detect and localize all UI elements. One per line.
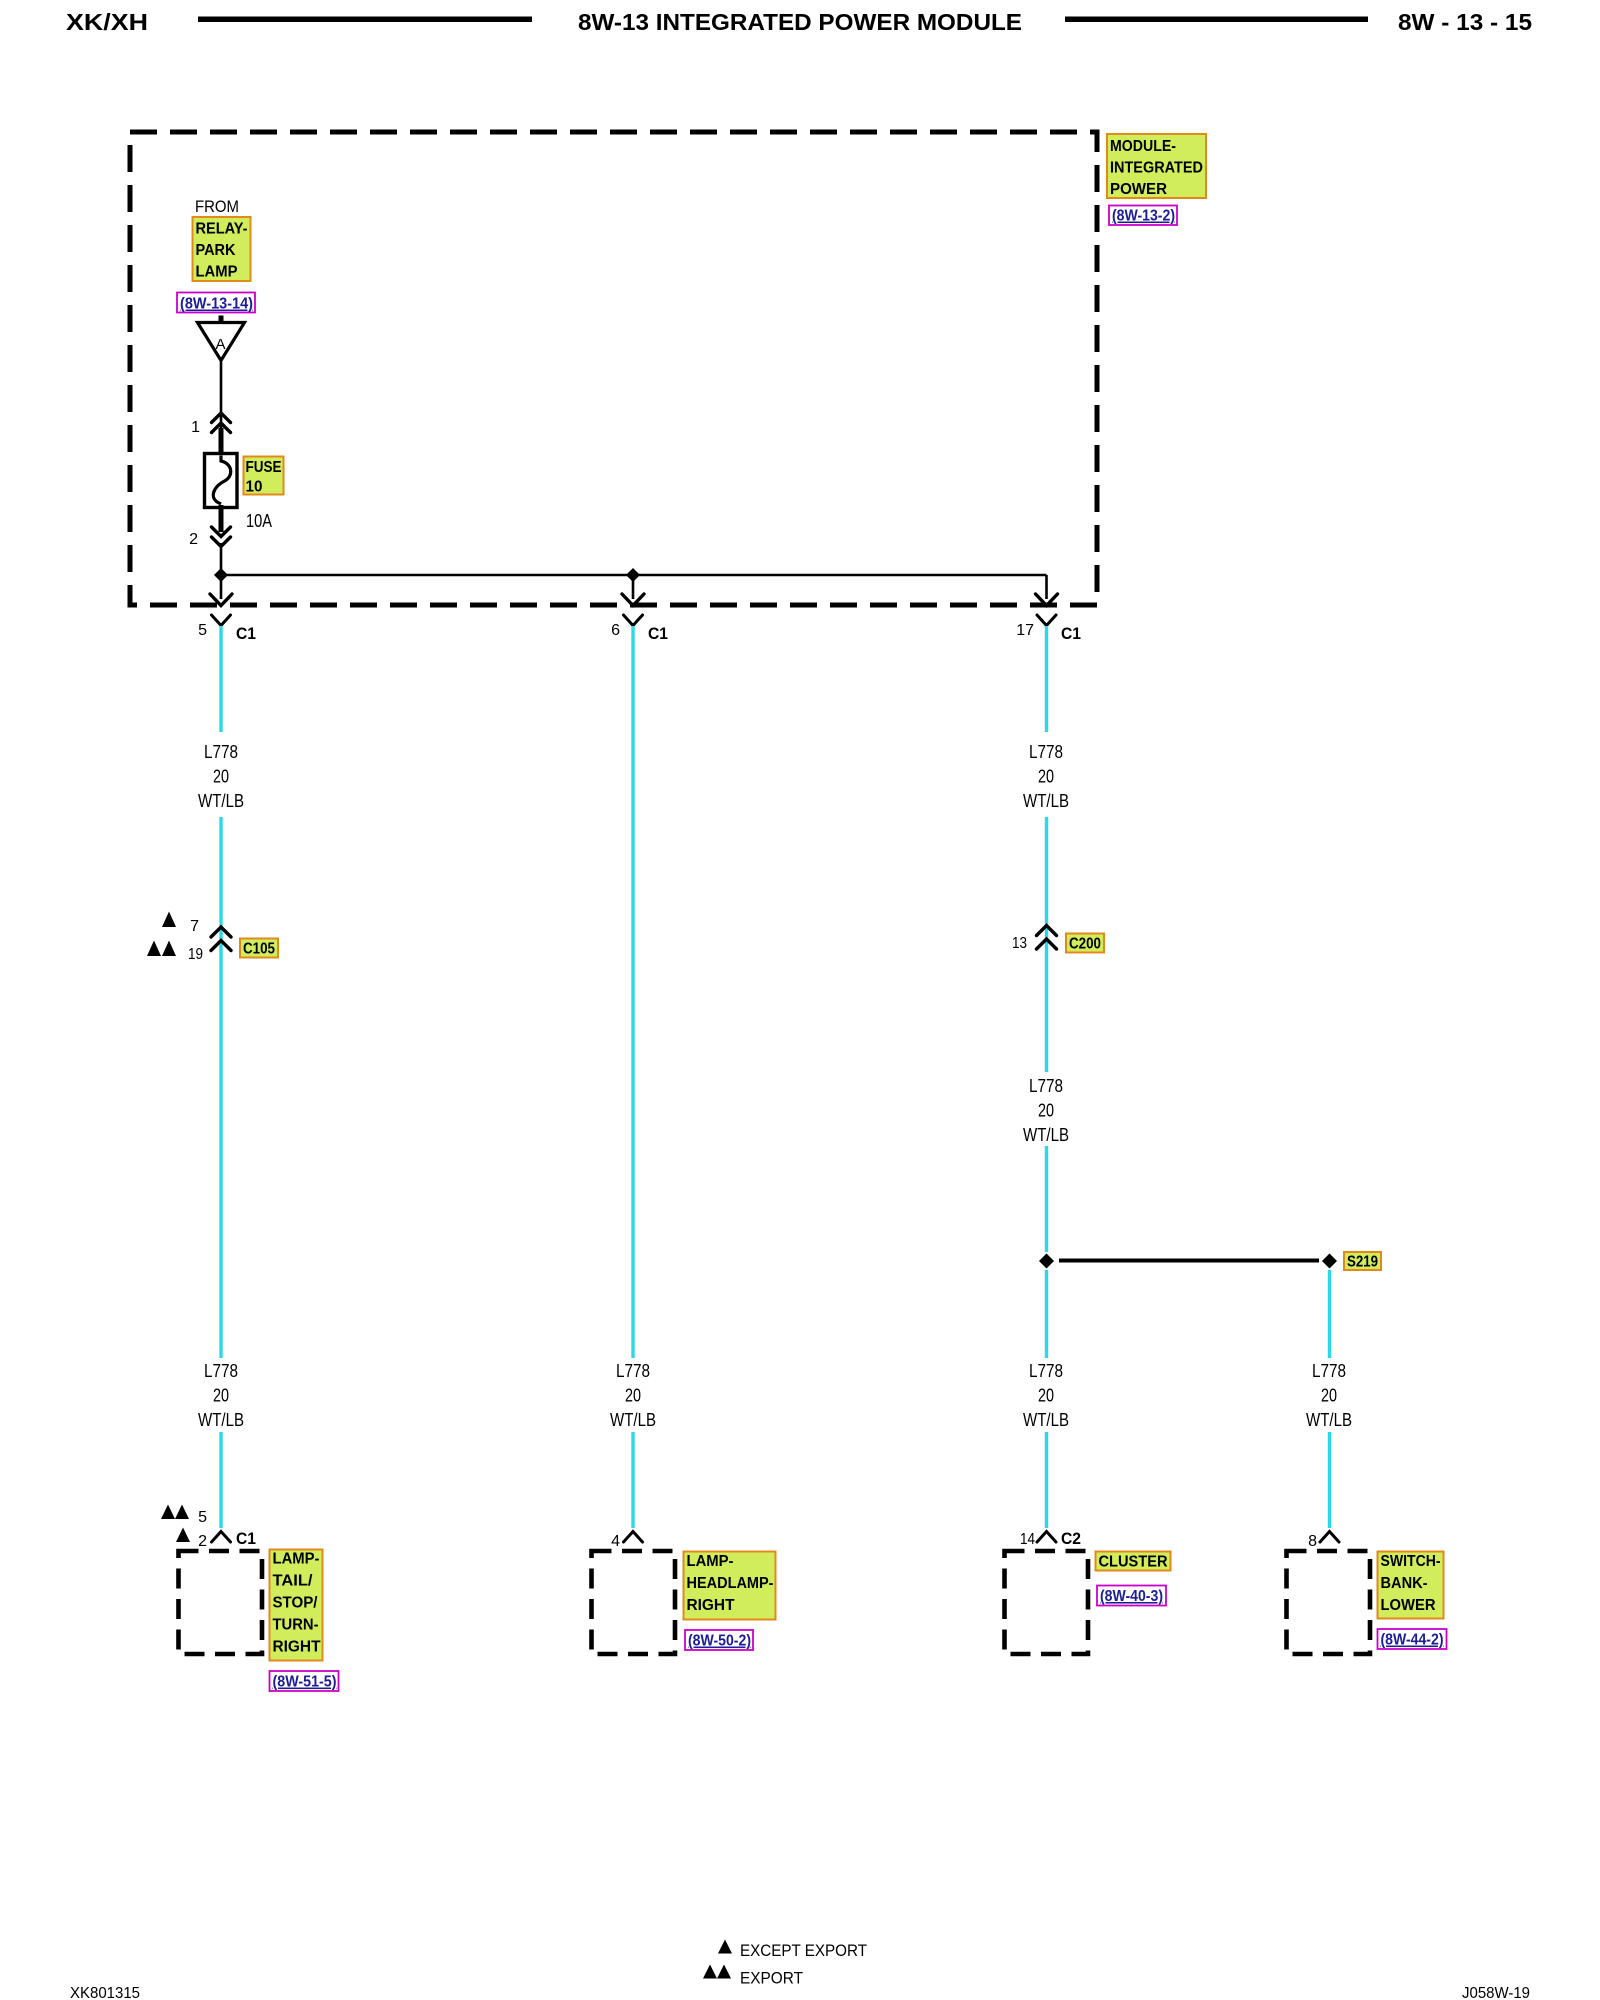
svg-text:A: A	[215, 336, 225, 353]
svg-text:20: 20	[1038, 767, 1054, 787]
svg-text:(8W-13-2): (8W-13-2)	[1112, 208, 1175, 225]
svg-text:LAMP: LAMP	[196, 264, 238, 281]
link 8W-40-3	[1097, 1586, 1166, 1606]
svg-text:STOP/: STOP/	[273, 1595, 319, 1612]
connector chevron col2	[624, 1532, 643, 1543]
arrow into C1 pin 6	[622, 594, 644, 606]
svg-text:PARK: PARK	[196, 242, 237, 259]
link 8W-51-5	[270, 1671, 339, 1691]
svg-text:20: 20	[213, 767, 229, 787]
svg-text:LOWER: LOWER	[1381, 1597, 1436, 1614]
svg-text:(8W-50-2): (8W-50-2)	[688, 1633, 751, 1650]
svg-text:L778: L778	[204, 742, 238, 762]
svg-text:WT/LB: WT/LB	[1023, 1125, 1069, 1145]
svg-text:L778: L778	[1312, 1361, 1346, 1381]
wire L778 col4 seg1	[1328, 1270, 1331, 1358]
svg-text:L778: L778	[1029, 1076, 1063, 1096]
link 8W-13-2	[1109, 206, 1177, 226]
wire label col3 top	[1023, 742, 1069, 811]
wire L778 col3 seg5	[1045, 1432, 1048, 1528]
svg-text:RIGHT: RIGHT	[687, 1597, 736, 1614]
svg-text:INTEGRATED: INTEGRATED	[1110, 160, 1203, 177]
svg-text:C2: C2	[1061, 1529, 1081, 1548]
wire L778 col2	[631, 626, 634, 1358]
splice S219 node right	[1322, 1254, 1337, 1269]
svg-text:1: 1	[191, 419, 200, 436]
svg-text:WT/LB: WT/LB	[1306, 1410, 1352, 1430]
svg-text:(8W-40-3): (8W-40-3)	[1100, 1588, 1163, 1605]
svg-text:BANK-: BANK-	[1381, 1575, 1428, 1592]
svg-text:8: 8	[1308, 1533, 1317, 1550]
legend except-export marker	[718, 1940, 867, 1961]
connector C200 chevrons	[1037, 926, 1057, 950]
svg-text:TURN-: TURN-	[273, 1617, 319, 1634]
svg-text:J058W-19: J058W-19	[1462, 1985, 1530, 2000]
svg-text:WT/LB: WT/LB	[1023, 791, 1069, 811]
wire bus horizontal	[221, 574, 1047, 577]
svg-text:FUSE: FUSE	[246, 459, 282, 476]
pin 1 of fuse	[191, 413, 230, 436]
svg-text:WT/LB: WT/LB	[198, 791, 244, 811]
marker export triangles pin19	[147, 941, 176, 957]
label LAMP-HEADLAMP-RIGHT	[684, 1552, 776, 1620]
wire L778 col1 seg3	[219, 1432, 222, 1528]
label FUSE 10	[244, 457, 284, 496]
component lamp-tail/stop/turn-right dashed box	[179, 1551, 263, 1654]
svg-text:EXPORT: EXPORT	[740, 1970, 803, 1988]
wire fuse to pin 2 thick	[219, 505, 224, 532]
svg-text:7: 7	[190, 918, 199, 935]
wire L778 col1 seg2	[219, 817, 222, 1358]
svg-text:(8W-44-2): (8W-44-2)	[1381, 1632, 1444, 1649]
label MODULE-INTEGRATED POWER	[1107, 134, 1206, 198]
svg-text:6: 6	[611, 622, 620, 639]
marker except-export triangle at C1 pin 2 bottom	[176, 1528, 190, 1543]
svg-text:SWITCH-: SWITCH-	[1381, 1553, 1441, 1570]
svg-text:LAMP-: LAMP-	[273, 1551, 320, 1568]
wire label col1 top	[198, 742, 244, 811]
svg-text:RIGHT: RIGHT	[273, 1639, 322, 1656]
label SWITCH-BANK-LOWER	[1378, 1552, 1444, 1619]
svg-text:L778: L778	[204, 1361, 238, 1381]
svg-text:RELAY-: RELAY-	[196, 221, 248, 238]
wire L778 col3 seg2	[1045, 817, 1048, 1072]
wire L778 col3 seg1	[1045, 626, 1048, 732]
svg-text:13: 13	[1012, 935, 1027, 952]
arrow into C1 pin 17	[1036, 594, 1058, 606]
svg-text:4: 4	[611, 1533, 620, 1550]
svg-text:20: 20	[1321, 1386, 1337, 1406]
node A source triangle	[198, 316, 245, 361]
component lamp-headlamp-right dashed box	[592, 1551, 676, 1654]
wire pin1 to fuse thick	[219, 428, 224, 456]
splice S219 node left	[1039, 1254, 1054, 1269]
svg-text:WT/LB: WT/LB	[198, 1410, 244, 1430]
svg-text:20: 20	[1038, 1101, 1054, 1121]
svg-text:TAIL/: TAIL/	[273, 1573, 314, 1590]
component cluster dashed box	[1005, 1551, 1089, 1654]
legend export marker	[703, 1965, 803, 1988]
component switch-bank-lower dashed box	[1287, 1551, 1371, 1654]
label C200	[1066, 934, 1104, 953]
wire from triangle A down to fuse pin 1	[220, 360, 223, 433]
wire label col1 bottom	[198, 1361, 244, 1430]
svg-text:10: 10	[246, 479, 263, 496]
header rule left	[198, 17, 532, 23]
arrow into C1 pin 5	[210, 594, 232, 606]
wire pin2 down to bus	[220, 543, 223, 599]
svg-text:20: 20	[625, 1386, 641, 1406]
svg-text:(8W-13-14): (8W-13-14)	[180, 296, 253, 313]
connector C2 chevron col3	[1037, 1532, 1056, 1543]
svg-text:XK801315: XK801315	[70, 1985, 140, 2000]
label LAMP-TAIL/STOP/TURN-RIGHT	[270, 1550, 323, 1661]
pin 2 of fuse	[189, 527, 230, 548]
wire bus drop col3	[1045, 575, 1048, 599]
svg-text:17: 17	[1016, 622, 1034, 639]
svg-text:LAMP-: LAMP-	[687, 1553, 734, 1570]
svg-text:C1: C1	[648, 624, 668, 643]
svg-text:5: 5	[198, 1509, 207, 1526]
wire label col3 bottom	[1023, 1361, 1069, 1430]
svg-text:C1: C1	[236, 624, 256, 643]
svg-text:C105: C105	[243, 941, 275, 958]
connector chevron col4	[1320, 1532, 1339, 1543]
svg-text:20: 20	[1038, 1386, 1054, 1406]
svg-text:L778: L778	[616, 1361, 650, 1381]
svg-text:8W-13 INTEGRATED POWER MODULE: 8W-13 INTEGRATED POWER MODULE	[578, 9, 1022, 35]
node junction col1	[214, 568, 228, 582]
svg-text:8W - 13 - 15: 8W - 13 - 15	[1398, 9, 1532, 35]
svg-text:5: 5	[198, 622, 207, 639]
wire splice S219 horizontal	[1059, 1259, 1319, 1263]
svg-text:14: 14	[1020, 1531, 1035, 1548]
connector C1 pin 17	[1016, 615, 1081, 643]
svg-text:C1: C1	[1061, 624, 1081, 643]
wire label col2 bottom	[610, 1361, 656, 1430]
svg-text:CLUSTER: CLUSTER	[1099, 1554, 1168, 1571]
wire L778 col1 seg1	[219, 626, 222, 732]
connector C1 pin 5	[198, 615, 256, 643]
svg-text:20: 20	[213, 1386, 229, 1406]
label CLUSTER	[1096, 1552, 1171, 1571]
fuse F1 body	[205, 454, 238, 508]
label RELAY-PARK LAMP	[193, 217, 251, 281]
node junction col2	[626, 568, 640, 582]
svg-text:2: 2	[189, 531, 198, 548]
svg-text:EXCEPT EXPORT: EXCEPT EXPORT	[740, 1942, 867, 1960]
connector C1 chevron col1	[212, 1532, 231, 1543]
link 8W-44-2	[1378, 1629, 1447, 1649]
svg-text:L778: L778	[1029, 742, 1063, 762]
svg-text:POWER: POWER	[1110, 181, 1167, 198]
svg-text:XK/XH: XK/XH	[66, 9, 148, 35]
label C105	[240, 939, 278, 958]
marker export triangles at C1 pin 5 bottom	[161, 1505, 189, 1520]
svg-text:WT/LB: WT/LB	[610, 1410, 656, 1430]
connector C1 pin 6	[611, 615, 668, 643]
svg-text:S219: S219	[1347, 1254, 1378, 1271]
marker except-export triangle pin7	[162, 912, 176, 928]
svg-text:2: 2	[198, 1533, 207, 1550]
module integrated power dashed outline	[130, 132, 1097, 605]
header rule right	[1065, 17, 1368, 23]
wire L778 col4 seg2	[1328, 1432, 1331, 1528]
svg-text:HEADLAMP-: HEADLAMP-	[687, 1575, 774, 1592]
wire L778 col2 seg2	[631, 1432, 634, 1528]
svg-text:C200: C200	[1069, 936, 1101, 953]
connector C105 chevrons	[211, 927, 231, 951]
label S219	[1344, 1252, 1381, 1271]
svg-text:L778: L778	[1029, 1361, 1063, 1381]
svg-text:(8W-51-5): (8W-51-5)	[273, 1674, 337, 1691]
wire bus drop col2	[632, 575, 635, 599]
wire label col3 mid	[1023, 1076, 1069, 1145]
svg-text:10A: 10A	[246, 511, 272, 531]
wire L778 col3 seg4	[1045, 1270, 1048, 1358]
svg-text:WT/LB: WT/LB	[1023, 1410, 1069, 1430]
svg-text:19: 19	[188, 946, 203, 963]
link 8W-50-2	[685, 1630, 753, 1650]
svg-text:MODULE-: MODULE-	[1110, 138, 1176, 155]
svg-text:C1: C1	[236, 1529, 256, 1548]
link 8W-13-14	[177, 293, 255, 313]
svg-text:FROM: FROM	[195, 198, 239, 216]
wire label col4 bottom	[1306, 1361, 1352, 1430]
wire L778 col3 seg3	[1045, 1146, 1048, 1252]
